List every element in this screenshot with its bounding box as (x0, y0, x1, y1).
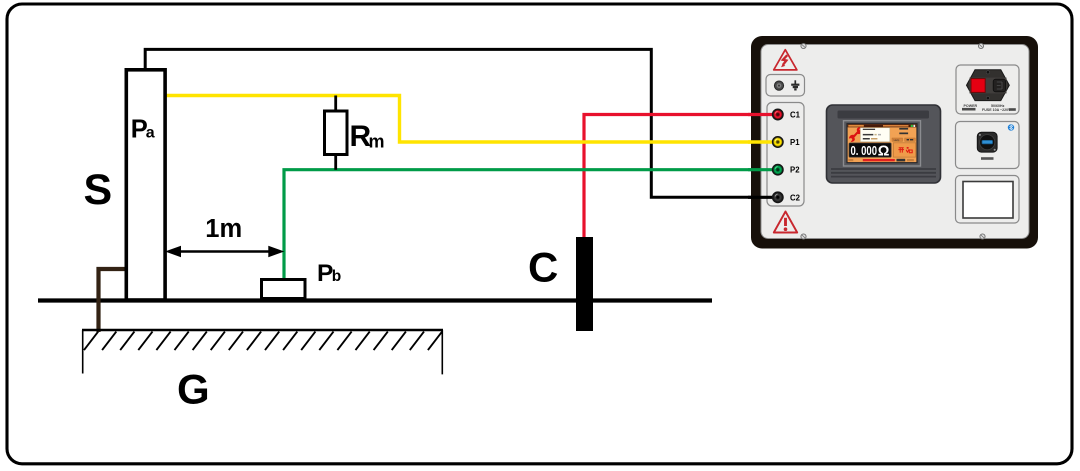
svg-text:G: G (177, 366, 210, 413)
LCD info white box (860, 128, 889, 142)
wire brown electrode-to-earth (99, 269, 126, 332)
power entry housing (967, 70, 1010, 101)
svg-text:Ω: Ω (878, 144, 890, 160)
svg-text:a: a (146, 125, 155, 142)
device shell (751, 36, 1038, 249)
svg-text:C1: C1 (790, 111, 801, 120)
terminal group box (767, 103, 804, 207)
earth hatching end ticks (83, 330, 443, 374)
screen top strip (838, 111, 930, 119)
LCD outer frame (844, 121, 921, 166)
usb label (981, 157, 994, 160)
svg-text:Help: Help (894, 138, 900, 142)
probe Pb box (262, 280, 306, 299)
device panel face (761, 45, 1029, 239)
svg-text:POWER: POWER (964, 104, 978, 108)
LCD record button (905, 138, 916, 141)
power module box (956, 65, 1019, 114)
power entry screws (986, 71, 989, 74)
blank module box (956, 176, 1020, 224)
usb module box (956, 122, 1020, 169)
power switch red rocker (971, 79, 985, 93)
bluetooth icon (1008, 124, 1014, 130)
wire stub green at P2 (748, 168, 776, 171)
dimension arrow 1m (167, 247, 283, 257)
wire green P2-to-Pb (284, 170, 774, 280)
terminal C1 (773, 109, 783, 119)
power entry inner recess (970, 78, 1007, 94)
resistor Rm leads (334, 96, 337, 170)
blank module window (963, 182, 1013, 219)
LCD top bar marks (848, 125, 915, 127)
usb plate screws (979, 134, 981, 136)
earth symbol (791, 80, 799, 89)
screen bottom ridges (831, 169, 936, 177)
ground surface line (38, 298, 712, 302)
svg-text:C2: C2 (790, 193, 801, 202)
power labels (962, 104, 1016, 112)
svg-text:S: S (84, 166, 113, 214)
wire stub yellow at P1 (748, 140, 776, 143)
wire stub red at C1 (748, 113, 776, 116)
LCD screen background (847, 124, 917, 163)
svg-text:P1: P1 (790, 138, 800, 147)
screw top-left (801, 43, 806, 48)
screw top-right (978, 43, 983, 48)
svg-text:0. 000: 0. 000 (851, 143, 878, 158)
resistor Rm body (325, 111, 348, 155)
svg-text:C: C (528, 244, 558, 291)
LCD help button (892, 138, 903, 142)
svg-text:P2: P2 (790, 166, 800, 175)
screw bottom-right (980, 234, 985, 239)
usb connector barrel (980, 135, 995, 150)
LCD reading display (849, 143, 891, 157)
ground terminal box (766, 75, 805, 97)
usb blue tab (982, 140, 993, 144)
screw bottom-left (801, 234, 806, 239)
LCD start button text (kai-shi glyphs) (898, 147, 912, 153)
svg-text:b: b (332, 268, 341, 285)
ground knob (774, 81, 783, 90)
wire yellow P1-to-electrode (165, 96, 774, 143)
LCD wrench icon (849, 127, 862, 142)
electrode S rod (Pa) (126, 70, 165, 300)
terminal C2 (773, 192, 783, 202)
svg-text:1m: 1m (205, 215, 242, 243)
LCD info box content (863, 129, 881, 140)
warning triangle lightning (774, 50, 797, 70)
svg-text:m: m (369, 132, 385, 152)
electrode C bar (576, 237, 593, 331)
LCD right menu bars (899, 128, 908, 134)
wire stub black at C2 (748, 196, 776, 199)
terminal P2 (773, 165, 783, 175)
usb connector plate (977, 132, 997, 152)
earth hatching strokes (84, 332, 442, 351)
svg-text:FUSE 10A ~220V: FUSE 10A ~220V (982, 108, 1011, 112)
wire red C1-to-C (584, 115, 774, 239)
terminal P1 (773, 137, 783, 147)
warning triangle exclamation (774, 212, 797, 233)
wire black C2-to-electrode-top (145, 49, 774, 197)
LCD bottom bar (848, 159, 914, 162)
IEC inlet (993, 79, 1005, 92)
earth hatching top line (82, 329, 443, 332)
LCD start button (893, 143, 915, 157)
screen bezel (827, 105, 941, 183)
LCD top status bar (848, 124, 917, 127)
